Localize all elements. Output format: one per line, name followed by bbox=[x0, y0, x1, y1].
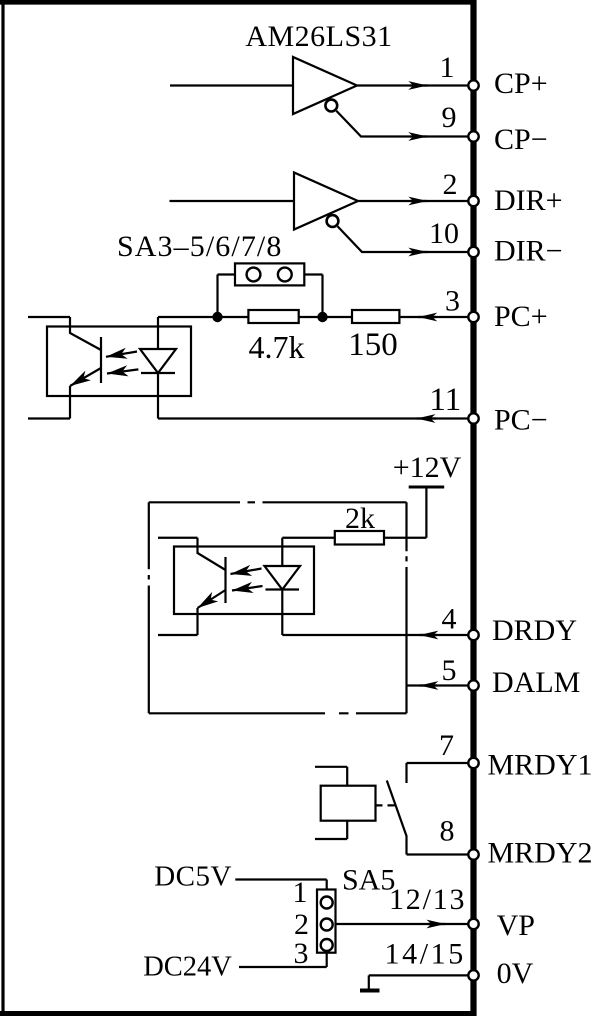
svg-text:3: 3 bbox=[294, 937, 309, 970]
svg-text:DIR−: DIR− bbox=[494, 235, 563, 268]
svg-text:CP−: CP− bbox=[494, 123, 548, 156]
svg-text:DIR+: DIR+ bbox=[494, 184, 563, 217]
svg-text:11: 11 bbox=[429, 382, 461, 418]
svg-text:5: 5 bbox=[442, 654, 457, 687]
svg-text:MRDY1: MRDY1 bbox=[488, 749, 591, 782]
svg-text:CP+: CP+ bbox=[494, 67, 548, 100]
svg-text:MRDY2: MRDY2 bbox=[488, 837, 591, 870]
svg-text:4.7k: 4.7k bbox=[249, 329, 305, 365]
svg-text:SA3–5/6/7/8: SA3–5/6/7/8 bbox=[117, 230, 282, 263]
svg-text:1: 1 bbox=[440, 51, 455, 84]
svg-text:8: 8 bbox=[440, 815, 455, 848]
svg-text:10: 10 bbox=[429, 217, 459, 250]
svg-text:9: 9 bbox=[442, 101, 457, 134]
svg-text:DC24V: DC24V bbox=[143, 952, 232, 983]
svg-text:4: 4 bbox=[442, 603, 457, 636]
svg-text:PC−: PC− bbox=[494, 404, 548, 437]
svg-text:1: 1 bbox=[293, 876, 308, 909]
svg-text:2k: 2k bbox=[345, 502, 375, 535]
svg-text:DRDY: DRDY bbox=[492, 614, 577, 647]
svg-text:12/13: 12/13 bbox=[389, 883, 466, 916]
svg-text:3: 3 bbox=[445, 285, 460, 318]
svg-text:150: 150 bbox=[348, 327, 398, 363]
svg-text:VP: VP bbox=[497, 909, 535, 942]
svg-text:DC5V: DC5V bbox=[154, 861, 232, 893]
svg-text:+12V: +12V bbox=[393, 451, 462, 484]
svg-text:14/15: 14/15 bbox=[385, 938, 466, 971]
svg-text:SA5: SA5 bbox=[342, 864, 395, 897]
svg-text:DALM: DALM bbox=[492, 666, 580, 699]
svg-text:PC+: PC+ bbox=[494, 300, 548, 333]
svg-text:2: 2 bbox=[443, 168, 458, 201]
svg-text:0V: 0V bbox=[497, 957, 534, 990]
svg-text:AM26LS31: AM26LS31 bbox=[245, 20, 392, 53]
svg-text:7: 7 bbox=[439, 729, 454, 762]
